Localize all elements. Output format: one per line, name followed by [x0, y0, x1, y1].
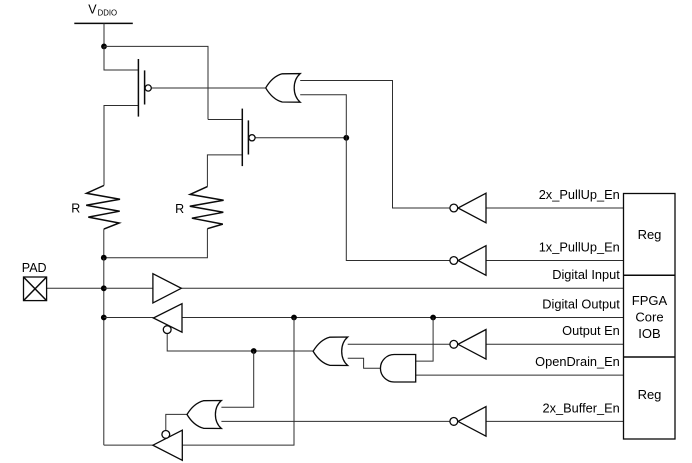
wire 2x_PullUp_En from Reg: [486, 207, 624, 209]
tri-state driver U3 (2x): [153, 430, 182, 460]
wire driver2 input branch: [182, 318, 294, 446]
transistor M1 pmos channel: [137, 59, 139, 117]
or-gate OR2 (output enable): [313, 337, 348, 366]
buffer U1 digital input: [153, 274, 181, 303]
PAD pin symbol: [24, 277, 47, 301]
svg-text:1x_PullUp_En: 1x_PullUp_En: [539, 240, 620, 255]
svg-text:Reg: Reg: [638, 227, 662, 242]
svg-text:Reg: Reg: [638, 387, 662, 402]
resistor R1: [86, 186, 120, 230]
resistor R2: [190, 187, 224, 229]
svg-text:Digital Input: Digital Input: [552, 267, 620, 282]
junction digital output / AND branch: [430, 315, 436, 321]
FPGA IOB block: [624, 194, 676, 440]
junction pad net / digital input: [101, 285, 107, 291]
svg-text:DDIO: DDIO: [98, 9, 118, 18]
inverter U6 (Output En): [450, 330, 486, 360]
transistor M2 gate bubble: [249, 135, 255, 141]
transistor M1 gate bar: [144, 70, 146, 104]
node VDDIO label: [88, 3, 117, 18]
node junction VDDIO: [101, 44, 107, 50]
wire driver1 enable from OR2: [167, 334, 313, 351]
wire OR3 bottom input from 2x_Buffer_En inverter: [221, 420, 449, 422]
wire 2x_Buffer_En from Reg: [486, 420, 624, 422]
wire pad net vertical: [103, 258, 105, 445]
wire M2 source stub: [208, 119, 242, 121]
wire M1 source: [104, 46, 138, 70]
svg-text:R: R: [71, 202, 80, 216]
wire OR1 top input from 2x_PullUp_En inverter: [300, 81, 450, 209]
driver U3 enable bubble: [162, 431, 170, 439]
wire 1x_PullUp_En from Reg: [486, 260, 624, 262]
junction enable wire / OR3 branch: [251, 348, 257, 354]
svg-text:R: R: [175, 202, 184, 216]
wire Digital Output line: [182, 317, 624, 319]
label FPGA Core IOB: [632, 293, 668, 341]
wire OR3 top input branch: [221, 351, 253, 407]
block divider 2: [624, 356, 676, 358]
wire M2 drain to R2: [207, 155, 241, 187]
wire driver1 output to pad net: [104, 317, 154, 319]
or-gate OR1 (pull-up select): [266, 74, 301, 103]
junction M2 gate tap: [343, 135, 349, 141]
wire digital input to buffer: [104, 287, 153, 289]
wire R1 bottom lead: [103, 229, 105, 258]
wire M1 drain to R1: [104, 106, 138, 186]
wire PAD to net: [47, 287, 104, 289]
svg-text:2x_Buffer_En: 2x_Buffer_En: [542, 400, 619, 415]
svg-text:Core: Core: [635, 309, 663, 324]
svg-text:IOB: IOB: [638, 326, 660, 341]
wire rail to node: [103, 23, 105, 46]
svg-text:OpenDrain_En: OpenDrain_En: [535, 354, 620, 369]
wire AND top input branch: [416, 318, 433, 362]
wire R2 bottom lead to node: [104, 229, 208, 258]
power rail VDDIO: [74, 22, 133, 24]
wire OR1 bottom input from 1x_PullUp_En inverter: [300, 95, 450, 261]
svg-text:V: V: [88, 3, 97, 17]
wire Digital Input buffer to IOB: [181, 287, 623, 289]
wire Output En inverter to OR2 top input: [348, 343, 450, 345]
svg-text:Output En: Output En: [562, 323, 620, 338]
wire Output En from IOB: [486, 343, 624, 345]
driver U2 enable bubble: [163, 326, 171, 334]
tri-state driver U2 (1x): [153, 304, 182, 333]
svg-text:PAD: PAD: [22, 261, 47, 275]
block divider 1: [624, 274, 676, 276]
svg-text:FPGA: FPGA: [632, 293, 668, 308]
wire OR3 output to driver2 enable: [166, 414, 187, 430]
junction pad net / driver1 output: [101, 315, 107, 321]
inverter U5 (1x_PullUp_En): [450, 246, 486, 276]
inverter U7 (2x_Buffer_En): [450, 407, 486, 437]
transistor M2 gate bar: [247, 120, 249, 154]
wire node to M2 branch: [104, 46, 208, 119]
inverter U4 (2x_PullUp_En): [450, 193, 486, 223]
transistor M2 pmos channel: [241, 109, 243, 167]
transistor M1 gate bubble: [145, 85, 151, 91]
junction digital output / driver2 branch: [291, 315, 297, 321]
svg-text:Digital Output: Digital Output: [542, 296, 620, 311]
and-gate A1 (open drain): [380, 354, 415, 382]
wire driver2 output to pad net: [104, 444, 153, 446]
svg-text:2x_PullUp_En: 2x_PullUp_En: [539, 187, 620, 202]
wire OpenDrain_En to AND bottom input: [416, 374, 624, 376]
wire M1 gate to OR1 output: [151, 87, 265, 89]
junction resistors to pad net: [101, 255, 107, 261]
or-gate OR3 (2x buffer enable): [187, 401, 221, 429]
wire AND output to OR2 bottom input: [348, 358, 381, 368]
wire M2 gate tap: [255, 137, 346, 139]
